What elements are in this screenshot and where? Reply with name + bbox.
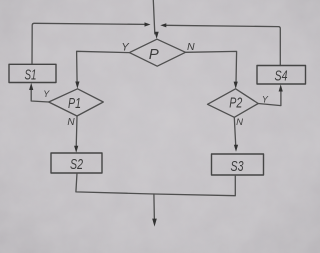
svg-text:P2: P2 (229, 95, 242, 112)
svg-text:P1: P1 (68, 95, 81, 112)
svg-text:Y: Y (43, 89, 50, 99)
svg-text:Y: Y (121, 42, 129, 54)
svg-text:Y: Y (262, 95, 269, 105)
svg-text:P: P (149, 46, 159, 63)
svg-text:S4: S4 (275, 68, 288, 85)
svg-text:S3: S3 (231, 158, 244, 175)
svg-text:N: N (67, 117, 75, 128)
svg-text:N: N (236, 117, 243, 128)
svg-text:S2: S2 (70, 156, 83, 173)
svg-text:N: N (187, 41, 195, 53)
svg-text:S1: S1 (25, 67, 37, 84)
